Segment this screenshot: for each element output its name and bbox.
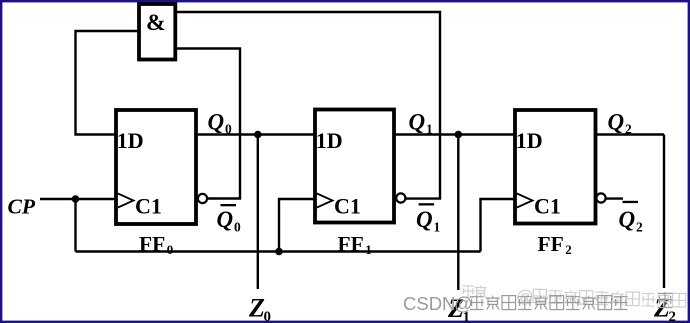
svg-text:1D: 1D xyxy=(516,128,543,153)
svg-text:1: 1 xyxy=(426,122,433,137)
svg-text:C1: C1 xyxy=(135,194,162,219)
junction: node Q0 xyxy=(254,131,262,139)
svg-text:2: 2 xyxy=(636,220,643,235)
complemented output label Q0-bar label xyxy=(221,204,237,206)
svg-text:&: & xyxy=(146,10,166,36)
wire: Q0 drop to output Z0 xyxy=(257,135,259,290)
D flip-flop FF0 body xyxy=(116,110,196,224)
svg-text:0: 0 xyxy=(234,220,241,235)
watermark: gray glyph overlapping Z2 xyxy=(658,292,673,307)
D flip-flop FF1 body xyxy=(315,110,394,223)
wire: Q2-bar stub xyxy=(606,197,623,199)
svg-text:CP: CP xyxy=(8,195,36,219)
complemented output label Q1-bar label xyxy=(419,203,435,205)
svg-text:1: 1 xyxy=(434,220,441,235)
FF1 clock edge triangle xyxy=(317,194,333,208)
wire: clock bus (net CP) xyxy=(76,250,481,252)
wire: CP drop to clock bus xyxy=(74,199,76,252)
wire: CP input to FF0 C1 xyxy=(40,198,116,200)
svg-text:CSDN: CSDN xyxy=(403,293,455,314)
wire: AND gate G1 output to FF0 1D input xyxy=(76,31,140,135)
wire: Q2 drop to output Z2 xyxy=(663,135,665,289)
junction: node Q1 xyxy=(455,131,463,139)
svg-text:Z: Z xyxy=(248,294,265,323)
svg-text:0: 0 xyxy=(264,309,272,323)
svg-text:2: 2 xyxy=(625,122,632,137)
svg-text:Q: Q xyxy=(619,207,636,232)
wire: Q1 output to FF2 1D input xyxy=(394,133,515,135)
D flip-flop FF2 body xyxy=(515,110,596,224)
FF2 Q-bar inversion bubble xyxy=(596,193,605,202)
svg-text:@: @ xyxy=(454,293,473,314)
svg-text:C1: C1 xyxy=(334,194,361,219)
svg-text:FF: FF xyxy=(338,232,364,256)
junction: node CP at FF0 clock xyxy=(72,195,80,203)
wire: clock bus riser to FF1 C1 xyxy=(279,199,315,252)
wire: Q1 drop to output Z1 xyxy=(457,135,459,291)
svg-text:1D: 1D xyxy=(316,128,343,153)
svg-text:1: 1 xyxy=(365,242,372,257)
svg-text:Q: Q xyxy=(208,110,225,135)
wire: Q0 output to FF1 1D input xyxy=(196,133,315,135)
wire: Q1-bar feedback to AND gate G1 top input xyxy=(175,12,440,199)
FF0 clock edge triangle xyxy=(118,194,134,208)
wire: Q2 output xyxy=(596,133,665,135)
FF1 Q-bar inversion bubble xyxy=(396,193,405,202)
wire: Q0-bar feedback to AND gate G1 lower input xyxy=(175,49,240,199)
FF2 clock edge triangle xyxy=(517,194,533,208)
svg-text:Q: Q xyxy=(409,110,426,135)
complemented output label Q2-bar label xyxy=(623,201,639,203)
svg-text:2: 2 xyxy=(565,242,572,257)
svg-text:Q: Q xyxy=(217,207,234,232)
svg-text:2: 2 xyxy=(669,309,677,323)
svg-text:C1: C1 xyxy=(534,194,561,219)
AND gate G1 body xyxy=(139,4,175,60)
svg-text:Q: Q xyxy=(608,110,625,135)
svg-text:1D: 1D xyxy=(117,128,144,153)
svg-text:0: 0 xyxy=(225,122,232,137)
svg-text:FF: FF xyxy=(538,232,564,256)
svg-text:Q: Q xyxy=(416,207,433,232)
wire: clock bus riser to FF2 C1 xyxy=(481,199,516,252)
FF0 Q-bar inversion bubble xyxy=(198,194,207,203)
watermark: light gray "zhihu @hotel front desk" text xyxy=(462,285,686,312)
junction: clock bus to FF1 riser xyxy=(275,248,283,256)
svg-text:0: 0 xyxy=(167,242,174,257)
svg-text:FF: FF xyxy=(139,232,165,256)
